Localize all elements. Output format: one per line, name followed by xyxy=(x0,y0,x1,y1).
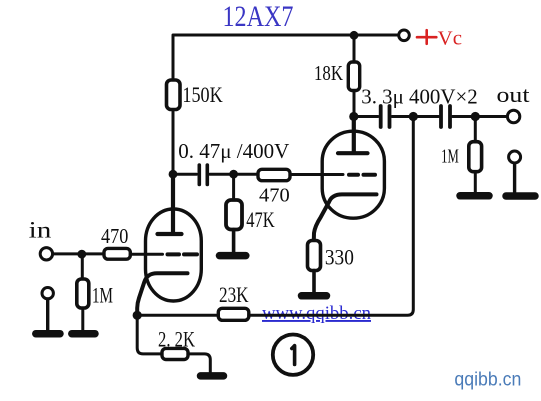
svg-text:150K: 150K xyxy=(182,82,222,107)
ground under 330 xyxy=(302,292,327,300)
tube V2 cathode xyxy=(314,194,377,240)
svg-text:1M: 1M xyxy=(441,145,459,167)
node plate V2 xyxy=(349,112,358,121)
svg-text:0. 47μ /400V: 0. 47μ /400V xyxy=(178,139,289,163)
resistor 470 (input) xyxy=(104,248,130,259)
wire 150K to coupling node xyxy=(172,110,175,175)
svg-text:470: 470 xyxy=(101,224,128,248)
wire 2.2K to ground xyxy=(188,354,210,372)
resistor 1M (input) xyxy=(77,254,89,330)
wire node to capacitor xyxy=(173,173,197,176)
terminal in xyxy=(40,248,52,260)
tube V2 envelope xyxy=(322,131,384,218)
tube V1 cathode xyxy=(137,273,187,315)
wire feedback 23K to output node xyxy=(249,117,413,316)
svg-text:out: out xyxy=(497,82,530,107)
svg-text:330: 330 xyxy=(325,245,354,270)
wire 470 to V2 grid xyxy=(290,173,343,176)
svg-text:2. 2K: 2. 2K xyxy=(158,326,195,351)
terminal out xyxy=(507,110,519,122)
resistor 47K xyxy=(226,200,242,230)
tube V1 envelope xyxy=(146,209,202,301)
svg-text:in: in xyxy=(29,218,52,243)
resistor 150K xyxy=(167,80,181,110)
wire between caps xyxy=(392,115,439,118)
node cathode V1 junction xyxy=(133,311,142,320)
wire in to junction xyxy=(53,252,104,255)
wire caps to out terminal xyxy=(453,115,508,118)
svg-text:qqibb.cn: qqibb.cn xyxy=(454,370,521,391)
terminal +Vc xyxy=(399,30,410,41)
ground under input 1M xyxy=(72,330,95,338)
terminal output ground lug xyxy=(509,151,521,163)
svg-text:12AX7: 12AX7 xyxy=(223,0,294,33)
node output junction xyxy=(471,112,480,121)
wire 47K to ground xyxy=(232,230,236,253)
tube V1 plate xyxy=(158,174,182,234)
resistor 2.2K xyxy=(162,348,188,359)
label figure number 1 xyxy=(273,335,313,375)
watermark www.qqibb.cn xyxy=(262,303,371,324)
node grid V2 junction xyxy=(229,170,238,179)
resistor 1M (output) xyxy=(469,117,482,193)
svg-text:www.qqibb.cn: www.qqibb.cn xyxy=(262,303,371,324)
terminal input ground lug xyxy=(42,288,53,299)
wire lug to ground xyxy=(46,299,49,330)
ground under output 1M xyxy=(460,192,489,200)
svg-text:3. 3μ 400V×2: 3. 3μ 400V×2 xyxy=(361,84,477,108)
svg-text:18K: 18K xyxy=(314,61,343,85)
label +Vc xyxy=(417,28,462,50)
wire node down to 47K xyxy=(232,174,235,200)
ground under 47K xyxy=(220,252,246,260)
node supply junction xyxy=(350,31,359,40)
node input junction xyxy=(77,250,86,259)
ground under input lug xyxy=(36,330,60,338)
svg-text:470: 470 xyxy=(259,184,290,206)
ground under lug xyxy=(506,192,535,200)
capacitor 3.3u B xyxy=(441,106,450,127)
wire lug to ground xyxy=(513,164,516,193)
svg-text:Vc: Vc xyxy=(438,28,462,50)
resistor 23K xyxy=(218,308,249,320)
wire 470 to V1 grid xyxy=(130,253,162,256)
node plate V1 coupling junction xyxy=(169,170,178,179)
ground under 2.2K xyxy=(201,372,224,380)
tube V2 grid dashes xyxy=(349,173,375,177)
wire cathode junction to 23K xyxy=(137,314,218,317)
capacitor 0.47u/400V xyxy=(199,165,207,185)
tube V1 grid dashes xyxy=(168,252,198,256)
capacitor 3.3u A xyxy=(381,106,390,127)
tube V2 plate xyxy=(338,117,368,154)
resistor 330 xyxy=(308,241,321,271)
wire grid node to 470 xyxy=(234,173,258,176)
wire plate node to output cap xyxy=(354,115,378,118)
wire 330 to ground xyxy=(312,271,316,293)
wire cathode junction down to 2.2K xyxy=(137,315,162,354)
node feedback takeoff xyxy=(409,112,418,121)
svg-text:1M: 1M xyxy=(92,282,113,307)
svg-text:23K: 23K xyxy=(219,282,249,307)
wire top supply rail xyxy=(173,35,399,80)
resistor 470 (grid stopper V2) xyxy=(258,169,290,180)
wire capacitor to grid node xyxy=(210,173,234,176)
resistor 18K xyxy=(348,35,359,116)
svg-text:47K: 47K xyxy=(246,207,274,232)
